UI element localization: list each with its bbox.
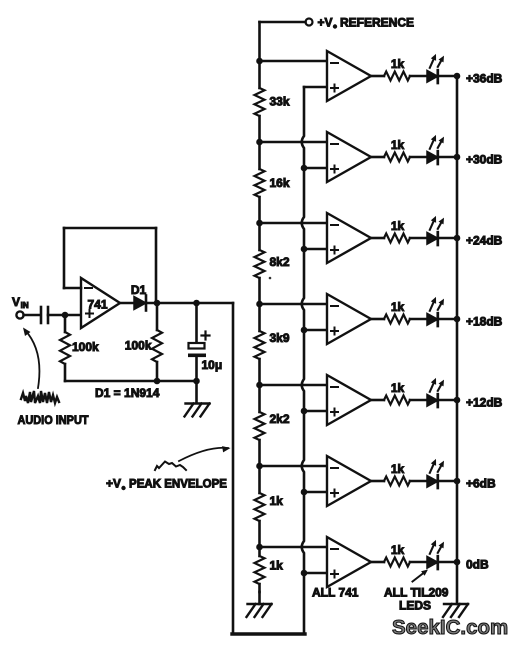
svg-text:ALL TIL209: ALL TIL209: [384, 586, 449, 600]
svg-text:+30dB: +30dB: [466, 153, 503, 167]
svg-text:1k: 1k: [391, 462, 405, 476]
svg-text:33k: 33k: [270, 95, 290, 109]
svg-text:+V: +V: [106, 477, 121, 491]
svg-text:0dB: 0dB: [466, 558, 489, 572]
svg-text:LEDS: LEDS: [399, 599, 431, 613]
svg-text:SeekIC.com: SeekIC.com: [392, 616, 508, 639]
svg-text:8k2: 8k2: [270, 255, 290, 269]
svg-text:1k: 1k: [391, 381, 405, 395]
svg-text:1k: 1k: [391, 543, 405, 557]
svg-text:1k: 1k: [391, 138, 405, 152]
svg-text:+24dB: +24dB: [466, 234, 503, 248]
svg-text:100k: 100k: [72, 340, 99, 354]
svg-text:+18dB: +18dB: [466, 315, 503, 329]
svg-text:1k: 1k: [391, 57, 405, 71]
svg-text:ALL 741: ALL 741: [312, 586, 359, 600]
svg-text:+12dB: +12dB: [466, 396, 503, 410]
svg-text:3k9: 3k9: [270, 331, 290, 345]
svg-text:D1 = 1N914: D1 = 1N914: [95, 386, 160, 400]
svg-text:1k: 1k: [270, 494, 284, 508]
svg-text:2k2: 2k2: [270, 412, 290, 426]
svg-text:10μ: 10μ: [202, 358, 223, 372]
svg-text:1k: 1k: [391, 219, 405, 233]
svg-text:+36dB: +36dB: [466, 72, 503, 86]
svg-text:AUDIO INPUT: AUDIO INPUT: [18, 413, 90, 427]
svg-text:741: 741: [87, 298, 107, 312]
svg-text:V: V: [12, 295, 20, 309]
svg-text:+V: +V: [318, 16, 333, 30]
svg-text:PEAK ENVELOPE: PEAK ENVELOPE: [129, 477, 227, 491]
svg-text:16k: 16k: [270, 176, 290, 190]
svg-text:D1: D1: [131, 283, 147, 297]
svg-text:1k: 1k: [270, 559, 284, 573]
svg-text:REFERENCE: REFERENCE: [340, 16, 414, 30]
svg-text:+6dB: +6dB: [466, 477, 496, 491]
svg-text:100k: 100k: [125, 339, 152, 353]
svg-text:1k: 1k: [391, 300, 405, 314]
svg-text:IN: IN: [21, 301, 29, 310]
